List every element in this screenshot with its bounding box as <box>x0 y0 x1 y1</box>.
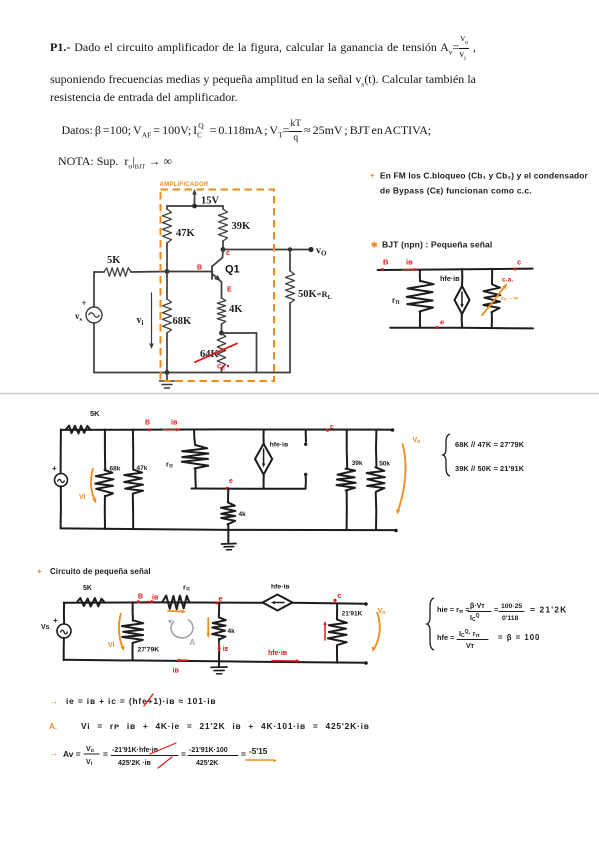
svg-text:Vi: Vi <box>79 494 86 501</box>
svg-text:Vi: Vi <box>108 642 115 649</box>
svg-text:425'2K: 425'2K <box>196 760 218 767</box>
svg-text:27'79K: 27'79K <box>138 647 160 654</box>
svg-text:✱: ✱ <box>371 241 378 250</box>
svg-text:0'118: 0'118 <box>502 615 519 622</box>
svg-text:Vo: Vo <box>86 746 95 754</box>
svg-text:39K: 39K <box>232 221 252 232</box>
svg-text:BJT (npn) : Pequeña señal: BJT (npn) : Pequeña señal <box>382 240 492 250</box>
svg-text:100·25: 100·25 <box>501 603 522 610</box>
svg-text:rₒ→∞: rₒ→∞ <box>501 295 518 302</box>
svg-text:=: = <box>103 749 108 759</box>
svg-text:iʙ: iʙ <box>152 595 159 602</box>
svg-text:15V: 15V <box>201 196 220 207</box>
svg-text:A: A <box>190 638 196 647</box>
svg-text:+: + <box>53 616 58 625</box>
svg-text:47k: 47k <box>137 465 148 472</box>
svg-text:c: c <box>226 250 230 257</box>
svg-text:Q1: Q1 <box>225 264 240 276</box>
svg-text:ICQ: ICQ <box>470 613 480 623</box>
svg-text:E: E <box>227 287 232 294</box>
svg-text:47K: 47K <box>176 228 196 239</box>
svg-text:Vs: Vs <box>41 624 50 631</box>
svg-text:B: B <box>197 265 202 272</box>
svg-text:Av =: Av = <box>63 749 81 759</box>
svg-text:Vo: Vo <box>413 437 421 445</box>
svg-text:425'2K ·iʙ: 425'2K ·iʙ <box>118 760 152 767</box>
svg-text:+: + <box>82 298 87 308</box>
svg-text:hfe =: hfe = <box>437 633 455 642</box>
svg-text:50K=RL: 50K=RL <box>298 289 332 301</box>
svg-text:+: + <box>37 567 42 576</box>
svg-text:B: B <box>145 420 150 427</box>
svg-text:iʙ: iʙ <box>173 668 180 675</box>
svg-text:vi: vi <box>137 315 144 327</box>
svg-text:rπ: rπ <box>166 460 174 470</box>
svg-text:=: = <box>494 605 499 614</box>
svg-text:e: e <box>440 318 444 327</box>
svg-text:=: = <box>181 749 186 759</box>
svg-text:B: B <box>138 594 143 601</box>
svg-text:Vᴛ: Vᴛ <box>466 643 475 650</box>
svg-text:Vi: Vi <box>86 759 93 767</box>
svg-text:c: c <box>337 593 341 600</box>
svg-text:=: = <box>241 749 246 759</box>
svg-text:rπ: rπ <box>183 583 191 593</box>
svg-text:e: e <box>229 478 233 485</box>
svg-text:= 21'2K: = 21'2K <box>530 605 567 615</box>
svg-text:21'91K: 21'91K <box>342 611 363 618</box>
svg-text:hfe·iʙ: hfe·iʙ <box>270 442 289 449</box>
svg-text:hie = rπ =: hie = rπ = <box>437 605 470 615</box>
svg-text:iʙ: iʙ <box>171 420 178 427</box>
svg-text:39k: 39k <box>352 460 363 467</box>
svg-text:Circuito de pequeña señal: Circuito de pequeña señal <box>50 567 151 576</box>
svg-text:B: B <box>383 258 389 267</box>
svg-text:4k: 4k <box>239 511 247 518</box>
svg-text:39K // 50K = 21'91K: 39K // 50K = 21'91K <box>455 464 525 473</box>
svg-text:68K // 47K = 27'79K: 68K // 47K = 27'79K <box>455 440 525 449</box>
svg-text:CE: CE <box>217 364 226 372</box>
svg-text:ie = iʙ + ic = (hfe+1)·iʙ ≈ 1: ie = iʙ + ic = (hfe+1)·iʙ ≈ 101·iʙ <box>66 696 216 706</box>
svg-text:AMPLIFICADOR: AMPLIFICADOR <box>160 182 209 188</box>
svg-text:68K: 68K <box>173 316 193 327</box>
svg-text:hfe·iʙ: hfe·iʙ <box>268 650 288 657</box>
svg-text:A.: A. <box>49 722 57 731</box>
svg-text:vO: vO <box>316 246 327 258</box>
svg-text:e: e <box>219 596 223 603</box>
svg-text:Vi = rᴘ iʙ + 4K·ie = 21'2K i: Vi = rᴘ iʙ + 4K·ie = 21'2K iʙ + 4K·101·i… <box>81 721 370 731</box>
svg-text:rπ: rπ <box>392 296 400 306</box>
svg-text:iʙ: iʙ <box>406 258 413 267</box>
svg-text:-21'91K·100: -21'91K·100 <box>189 747 228 754</box>
svg-text:Vo: Vo <box>378 608 386 616</box>
svg-text:5K: 5K <box>90 409 100 418</box>
svg-text:50k: 50k <box>379 460 390 467</box>
svg-text:c.a.: c.a. <box>502 277 513 284</box>
svg-text:iᴇ: iᴇ <box>223 646 229 653</box>
svg-text:c: c <box>330 424 334 431</box>
svg-text:68k: 68k <box>110 466 121 473</box>
svg-text:5K: 5K <box>107 255 121 266</box>
svg-text:= β = 100: = β = 100 <box>498 633 540 642</box>
svg-text:+: + <box>52 464 57 473</box>
svg-text:hfe·iʙ: hfe·iʙ <box>440 274 460 283</box>
svg-text:-5'15: -5'15 <box>249 747 268 756</box>
svg-text:de Bypass (Cᴇ) funcionan com: de Bypass (Cᴇ) funcionan como c.c. <box>380 186 532 196</box>
svg-text:vs: vs <box>75 311 83 323</box>
svg-text:β·Vᴛ: β·Vᴛ <box>470 603 485 610</box>
svg-text:→: → <box>49 748 58 758</box>
svg-text:5K: 5K <box>83 585 92 592</box>
svg-text:ICQ· rπ: ICQ· rπ <box>459 629 480 639</box>
svg-text:→: → <box>49 696 58 706</box>
svg-text:c: c <box>517 258 521 267</box>
svg-text:4k: 4k <box>228 628 236 635</box>
svg-text:+: + <box>370 171 375 180</box>
svg-text:En FM los C.bloqueo (Cb₁ y Cb₂: En FM los C.bloqueo (Cb₁ y Cb₂) y el con… <box>380 171 589 181</box>
svg-text:hfe·iʙ: hfe·iʙ <box>271 584 290 591</box>
svg-text:4K: 4K <box>229 304 243 315</box>
